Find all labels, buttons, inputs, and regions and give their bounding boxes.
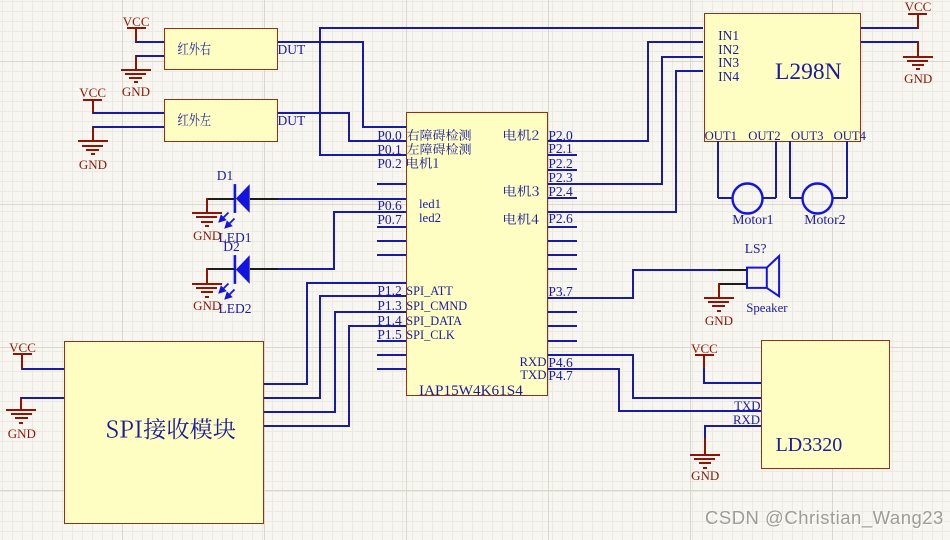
pin stub U1 left row17	[377, 368, 406, 370]
pin stub U1 P2.4	[548, 197, 577, 199]
pin name IN2	[718, 43, 739, 57]
wire vertical down to U1 row0	[362, 41, 364, 128]
driver U2 L298N body	[704, 13, 862, 142]
pin designator P2.6	[548, 212, 572, 226]
pin name OUT1	[705, 130, 737, 143]
power flag VCC (SPI module)	[13, 353, 32, 355]
pin designator P1.2	[377, 284, 401, 298]
wire P2.3 right	[548, 183, 662, 185]
pin stub U1 right row9	[548, 254, 577, 256]
wire P2.0 right	[548, 140, 648, 142]
pin designator P2.4	[548, 185, 572, 199]
wire VCC to 红外左	[93, 112, 165, 114]
wire into LD3320 TXD	[633, 397, 761, 399]
wire D2 right	[278, 268, 334, 270]
pin name OUT4	[834, 130, 866, 143]
pin stub U1 P2.1	[548, 154, 577, 156]
wire SPI out1	[264, 383, 307, 385]
pin name OUT3	[791, 130, 823, 143]
pin stub U1 left row4	[377, 183, 406, 185]
LED D1	[207, 198, 235, 200]
pin designator P4.6	[548, 356, 572, 370]
ground GND (L298N)	[917, 41, 919, 57]
pin name 电机3 (P2.4)	[504, 185, 539, 197]
ground GND (speaker)	[718, 283, 720, 299]
power flag VCC (infrared right supply)	[127, 27, 146, 29]
wire into IN2	[648, 41, 704, 43]
wire vertical P3.7 up	[632, 269, 634, 299]
wire SPI out3	[264, 411, 335, 413]
wire vertical down to RXD	[618, 368, 620, 412]
wire VCC down to LD3320 row	[703, 368, 705, 384]
diode D1 designator	[217, 169, 234, 183]
wire L298N to VCC	[861, 27, 918, 29]
pin name SPI_CMND (P1.3)	[406, 300, 467, 312]
pin designator P2.0	[548, 129, 572, 143]
pin name led2 (P0.7)	[419, 212, 441, 225]
speaker designator LS?	[745, 242, 767, 256]
wire OUT3 down	[789, 141, 791, 198]
wire into U1 P0.6 row	[334, 211, 406, 213]
pin name SPI_DATA (P1.4)	[406, 315, 462, 327]
wire into U1 P0.1 row	[320, 154, 406, 156]
wire OUT1 to Motor1	[718, 197, 731, 199]
pin name SPI_ATT (P1.2)	[406, 285, 452, 297]
wire down to GND	[704, 425, 706, 440]
pin name 电机4 (P2.6)	[504, 213, 539, 225]
label LED1	[219, 231, 252, 245]
pin stub U1 P2.2	[548, 169, 577, 171]
diode D2 designator	[223, 240, 240, 254]
pin stub U1 left row16	[377, 354, 406, 356]
pin stub U1 right row15	[548, 340, 577, 342]
ground GND (infrared left)	[92, 126, 94, 142]
net label TXD (LD3320)	[734, 400, 760, 413]
pin stub U1 P1.5	[377, 340, 406, 342]
wire vertical down to TXD	[632, 354, 634, 399]
wire OUT4 down	[846, 141, 848, 198]
net label RXD (LD3320)	[733, 414, 760, 427]
pin stub U1 left row9	[377, 254, 406, 256]
wire OUT4 to Motor2	[833, 197, 847, 199]
wire into U1 P1.2 row	[320, 295, 406, 297]
wire VCC to 红外右	[136, 41, 164, 43]
pin designator P1.4	[377, 314, 401, 328]
wire SPI out2	[264, 397, 321, 399]
power flag VCC (LD3320)	[695, 354, 714, 356]
ground GND (LED D2)	[206, 268, 208, 284]
pin name OUT2	[748, 130, 780, 143]
MCU U1 IAP15W4K61S4 body	[406, 112, 548, 396]
wire vertical IN1 net down to P0.1	[319, 27, 321, 156]
wire D1 to U1 led1 row	[278, 198, 406, 200]
pin designator P0.2	[377, 157, 401, 171]
pin name 右障碍检测 (P0.0)	[407, 129, 471, 141]
pin designator P0.7	[377, 213, 401, 227]
pin name IN1	[718, 29, 739, 43]
U1 part name IAP15W4K61S4	[419, 383, 523, 398]
pin designator P2.1	[548, 142, 572, 156]
LED D1 emission arrows	[216, 210, 236, 230]
wire U1 right row6	[548, 211, 676, 213]
LED D2 emission arrows	[216, 281, 236, 301]
U2 part name L298N	[775, 61, 842, 85]
module U3 LD3320 body	[761, 340, 890, 469]
pin designator P0.6	[377, 199, 401, 213]
ground GND (SPI module)	[20, 397, 22, 411]
speaker LS? symbol	[718, 269, 746, 271]
wire 红外右 DUT to vertical	[278, 41, 363, 43]
pin stub U1 right row14	[548, 325, 577, 327]
wire GND to 红外右	[136, 55, 165, 57]
motor M1 Motor1	[731, 182, 764, 215]
LED D2	[207, 268, 235, 270]
watermark CSDN @Christian_Wang23	[705, 507, 944, 529]
U3 part name LD3320	[776, 435, 843, 455]
pin stub U1 left row8	[377, 240, 406, 242]
wire vertical down to P0.0	[348, 112, 350, 142]
pin designator P2.2	[548, 157, 572, 171]
pin stub U1 P0.7	[377, 226, 406, 228]
pin name 电机2 (P2.0)	[504, 129, 539, 141]
wire into IN4	[676, 70, 704, 72]
ground GND (LD3320)	[704, 438, 706, 456]
wire into IN3	[662, 56, 703, 58]
pin name 电机1 (P0.2)	[407, 157, 438, 169]
net label DUT (infrared left output)	[278, 114, 306, 128]
module 红外左 (infrared left sensor)	[164, 99, 278, 142]
motor M2 Motor2	[801, 182, 834, 215]
power flag VCC (L298N supply)	[908, 13, 927, 15]
wire P4.7 right	[548, 368, 619, 370]
pin stub U1 right row8	[548, 240, 577, 242]
pin stub U1 P2.6	[548, 226, 577, 228]
wire vertical up to IN4	[675, 70, 677, 214]
pin designator P4.7	[548, 369, 572, 383]
pin designator P2.3	[548, 171, 572, 185]
wire P4.6 right	[548, 354, 633, 356]
label LED2	[219, 302, 252, 316]
pin name IN4	[718, 70, 739, 84]
pin name led1 (P0.6)	[419, 198, 441, 211]
wire vertical SPI4 up	[348, 325, 350, 427]
pin designator P0.0	[377, 129, 401, 143]
pin name TXD (P4.7)	[520, 369, 546, 382]
wire vertical D2 up to P0.6	[333, 211, 335, 271]
wire L298N to GND	[861, 41, 918, 43]
wire OUT2 down	[775, 141, 777, 198]
net label DUT (infrared right output)	[278, 43, 306, 57]
wire OUT1 down	[717, 141, 719, 198]
pin stub U1 right row13	[548, 311, 577, 313]
pin designator P3.7	[548, 285, 572, 299]
wire into U1 P1.4 row	[349, 325, 406, 327]
wire to speaker	[633, 269, 718, 271]
wire GND to 红外左	[93, 126, 165, 128]
wire into U1 top-left pin	[363, 126, 406, 128]
wire OUT3 to Motor2	[790, 197, 802, 199]
wire LD3320 GND pin	[705, 425, 761, 427]
module 红外右 (infrared right sensor)	[164, 28, 278, 70]
module SPI接收模块 (SPI receiver)	[64, 341, 263, 525]
wire OUT2 to Motor1	[763, 197, 776, 199]
wire vertical SPI2 up	[319, 295, 321, 398]
power flag VCC (infrared left supply)	[83, 99, 102, 101]
wire into U1 P1.3 row	[335, 311, 406, 313]
wire vertical up to IN3	[661, 56, 663, 185]
wire into U1 P0.0 row	[349, 140, 406, 142]
wire vertical up to IN2	[647, 41, 649, 142]
wire VCC to SPI module	[22, 368, 64, 370]
pin name IN3	[718, 56, 739, 70]
pin name SPI_CLK (P1.5)	[406, 329, 455, 341]
wire into U1 row11	[307, 282, 406, 284]
ground GND (infrared right)	[135, 55, 137, 70]
wire vertical SPI1 up	[306, 282, 308, 385]
pin designator P0.1	[377, 143, 401, 157]
pin name RXD (P4.6)	[519, 356, 546, 369]
wire GND to SPI module	[21, 397, 64, 399]
wire vertical SPI3 up	[334, 311, 336, 413]
wire SPI out4	[264, 425, 350, 427]
speaker label Speaker	[746, 302, 787, 315]
pin designator P1.5	[377, 328, 401, 342]
wire IN1 long top net	[320, 27, 703, 29]
ground GND (LED D1)	[206, 198, 208, 214]
pin name 左障碍检测 (P0.1)	[407, 143, 471, 155]
wire 红外左 DUT right	[278, 112, 348, 114]
wire into LD3320 RXD	[619, 410, 761, 412]
pin stub U1 right row10	[548, 268, 577, 270]
wire P3.7 right	[548, 297, 633, 299]
pin designator P1.3	[377, 299, 401, 313]
